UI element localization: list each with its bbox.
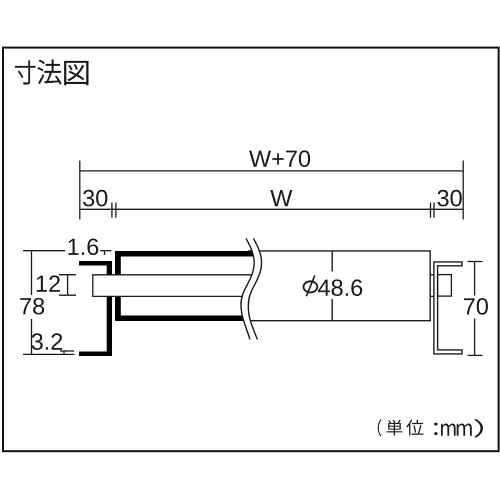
roller seam line upper: [331, 252, 333, 272]
dimension 12: top tick: [59, 274, 76, 276]
left frame channel: bottom flange (section): [79, 352, 112, 357]
roller shaft (passes through frame web and tube cap): [93, 275, 252, 297]
dimension 70: line lower: [474, 319, 476, 356]
left frame channel: top flange (section): [79, 261, 112, 266]
3.2 pointer stub: [63, 351, 65, 354]
shaft stub top line (right): [430, 274, 434, 276]
dimension W+70: extension line right: [462, 161, 464, 220]
break mark: white gap band: [241, 239, 262, 340]
label 1.6: [68, 238, 98, 255]
label φ48.6 (slanted phi drawn manually): [304, 281, 318, 292]
right frame channel profile (section, opens right): [434, 262, 462, 354]
dimension line W+70: [80, 170, 463, 172]
title 寸法図: [15, 59, 88, 85]
label W: [270, 190, 292, 206]
dimension 1.6 leader line (also 78 top tick): [23, 250, 65, 252]
roller right end cap line: [429, 251, 431, 321]
label 78: [20, 298, 44, 315]
shaft stub bottom line (right): [430, 295, 434, 297]
1.6 pointer tick bar on tube wall: [100, 250, 111, 252]
label 30 left: [83, 190, 107, 207]
shaft top line: [93, 274, 253, 276]
dimension 78: line lower: [31, 319, 33, 354]
break mark: right S-curve: [248, 239, 261, 340]
separator ticks right (W|30): [430, 203, 432, 218]
roller tube: left end cap (section): [115, 251, 121, 321]
dimension W+70: extension line left: [79, 161, 81, 220]
dimension 78: line upper: [31, 251, 33, 295]
dimension 12: vertical line: [67, 275, 69, 296]
dimension line 30 / W / 30: [80, 208, 463, 210]
roller seam line lower: [331, 299, 333, 320]
shaft left end line: [92, 274, 94, 297]
label W+70: [249, 150, 310, 167]
label 3.2: [32, 333, 63, 350]
dimension 70: bottom tick: [468, 354, 483, 356]
break mark: left S-curve: [241, 239, 254, 340]
note (単位：mm): [378, 419, 483, 438]
dimension 12: bottom tick: [59, 294, 76, 296]
3.2 pointer tick bar on flange top: [60, 350, 74, 352]
roller right half: top line: [248, 250, 431, 252]
shaft bottom line: [93, 295, 250, 297]
dimension 70: top tick: [468, 261, 483, 263]
1.6 pointer stub: [104, 251, 106, 255]
label 12: [37, 275, 60, 291]
roller right half: bottom line: [243, 320, 431, 322]
spring shaft end block: [438, 275, 452, 297]
dimension 70: line upper: [474, 262, 476, 296]
roller tube: top wall (section): [115, 251, 254, 257]
label 30 right: [437, 190, 461, 207]
separator ticks left (30|W): [111, 203, 113, 218]
label 70: [464, 298, 488, 315]
roller tube: bottom wall (section): [115, 316, 246, 322]
dimension 78 bottom tick / 3.2 leader line: [23, 353, 75, 355]
left frame channel: web (section): [107, 261, 112, 356]
